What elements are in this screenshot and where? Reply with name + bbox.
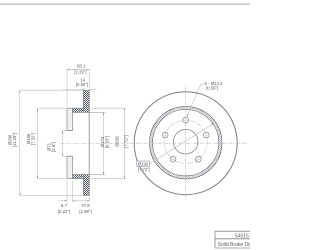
svg-text:[7.72"]: [7.72"] <box>138 167 150 172</box>
bolt circle (dash-dot) <box>164 120 207 163</box>
disc outer face silhouette <box>88 90 90 195</box>
callout 5 bolt holes leader <box>187 84 204 117</box>
hat top wall hatched <box>72 108 83 112</box>
dimension hat OD left inner <box>38 108 66 178</box>
top border line of sheet <box>0 3 250 5</box>
bore upper edge <box>67 130 72 132</box>
bore lower edge <box>67 155 72 157</box>
center bore circle <box>173 129 198 154</box>
svg-text:5.7: 5.7 <box>61 203 68 208</box>
disc bar lower hatched <box>83 174 89 195</box>
dimension hat outer diameter between views <box>91 108 126 178</box>
hat mounting wall upper hatched <box>67 108 72 130</box>
bolt hole 2 (upper-left) <box>162 132 168 138</box>
svg-text:[7.32"]: [7.32"] <box>31 133 36 145</box>
svg-text:[1.88"]: [1.88"] <box>79 209 91 214</box>
svg-text:[0.55"]: [0.55"] <box>76 82 88 87</box>
hat mounting wall lower hatched <box>67 156 72 178</box>
hat ring hatched annulus <box>150 107 222 179</box>
section horizontal center line <box>60 142 113 144</box>
bolt hole 4 (lower-right) <box>196 156 202 162</box>
hat interior top edge <box>72 111 105 113</box>
hat interior bottom edge <box>72 173 105 175</box>
svg-text:58.1: 58.1 <box>77 63 86 68</box>
hat diameter line with arrows <box>150 123 214 163</box>
bolt hole center marks <box>162 117 209 162</box>
dimension OD 286 left of section <box>20 90 82 195</box>
svg-text:Ø196: Ø196 <box>114 136 119 147</box>
title block table grid <box>215 231 250 248</box>
dimension center bore <box>63 131 66 157</box>
dimension 14 disc thickness <box>63 88 97 90</box>
svg-text:[0.56"]: [0.56"] <box>206 86 218 91</box>
face view vertical center line <box>185 87 187 201</box>
svg-text:[7.72"]: [7.72"] <box>123 135 128 147</box>
svg-text:[2.29"]: [2.29"] <box>74 70 86 75</box>
svg-text:[2.8"]: [2.8"] <box>51 142 56 152</box>
outer circle OD <box>134 92 237 195</box>
svg-text:47.8: 47.8 <box>81 203 90 208</box>
hat bottom wall hatched <box>72 174 83 178</box>
dimension 58.1 overall height top <box>67 69 89 107</box>
dimension 5.7 flange + 47.8 offset bottom <box>58 181 89 203</box>
svg-text:[11.26"]: [11.26"] <box>12 133 17 147</box>
bolt hole 1 (top) <box>183 117 189 123</box>
disc bar upper hatched <box>83 90 89 112</box>
bolt hole 3 (lower-left) <box>170 156 176 162</box>
svg-text:Ø196: Ø196 <box>138 162 149 167</box>
svg-text:[6.93"]: [6.93"] <box>105 136 110 148</box>
hat ring inner circle <box>152 109 219 176</box>
svg-text:54015: 54015 <box>235 233 249 239</box>
svg-text:[0.22"]: [0.22"] <box>58 209 70 214</box>
hat diameter boxed label <box>137 161 150 167</box>
svg-text:Solid Brake Disc: Solid Brake Disc <box>218 242 251 248</box>
hat ring outer circle <box>150 107 222 179</box>
dimension friction ID right of section <box>102 112 104 174</box>
bolt hole 5 (upper-right) <box>203 132 209 138</box>
face view horizontal center line <box>115 142 248 144</box>
